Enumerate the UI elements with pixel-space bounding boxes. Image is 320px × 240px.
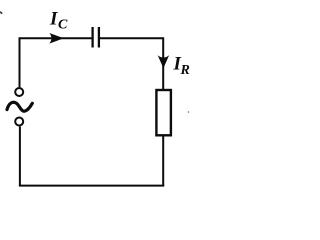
wire right vertical upper (corner down to resistor top) bbox=[162, 37, 164, 90]
wire top-left vertical (top corner down to source top terminal) bbox=[19, 38, 21, 87]
AC source: bottom terminal circle bbox=[15, 118, 23, 126]
AC source: top terminal circle bbox=[15, 88, 23, 96]
capacitor left plate bbox=[91, 27, 93, 48]
wire right vertical lower (resistor bottom to bottom wire) bbox=[162, 135, 164, 186]
wire top horizontal right (capacitor to top-right corner) bbox=[100, 37, 163, 39]
current arrow I_R (stealth head pointing down) bbox=[158, 55, 169, 68]
svg-text:I: I bbox=[49, 9, 58, 30]
wire top horizontal left (corner to capacitor left plate) bbox=[19, 37, 93, 39]
capacitor right plate bbox=[98, 27, 100, 48]
svg-text:R: R bbox=[180, 63, 190, 78]
stray mark top-left (scan artifact) bbox=[0, 12, 2, 14]
wire left vertical lower (source bottom terminal to bottom wire) bbox=[19, 126, 21, 186]
wire bottom horizontal bbox=[19, 185, 164, 187]
stray speck right (scan artifact) bbox=[188, 111, 190, 113]
resistor R (rectangle) bbox=[156, 90, 171, 135]
current arrow I_C (stealth head pointing right) bbox=[49, 33, 64, 44]
AC source: sine (tilde) symbol bbox=[7, 102, 32, 111]
svg-text:C: C bbox=[58, 18, 68, 33]
